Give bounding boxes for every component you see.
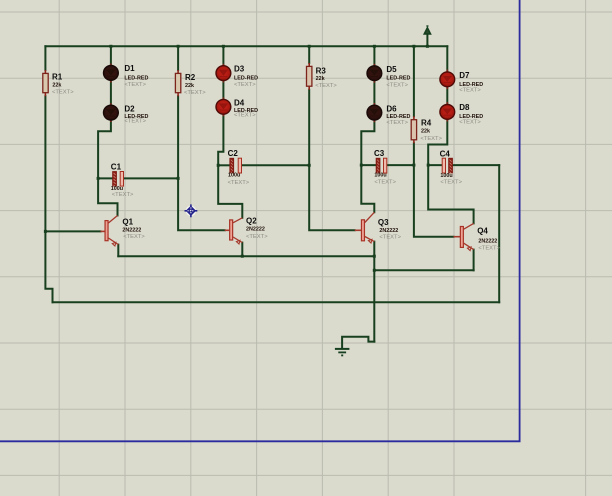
svg-text:<TEXT>: <TEXT> bbox=[184, 90, 206, 96]
svg-text:D6: D6 bbox=[386, 105, 397, 114]
svg-text:LED-RED: LED-RED bbox=[124, 75, 148, 81]
wire C1 right to R2 vertical bbox=[124, 177, 178, 179]
junction rail-R4 bbox=[412, 45, 415, 48]
svg-text:22k: 22k bbox=[185, 83, 194, 89]
resistor R3 bbox=[307, 63, 312, 90]
svg-text:<TEXT>: <TEXT> bbox=[459, 87, 481, 93]
wire rail corner down to D7 top bbox=[446, 46, 448, 72]
svg-text:100u: 100u bbox=[228, 173, 240, 179]
svg-text:D5: D5 bbox=[386, 65, 397, 74]
svg-text:22k: 22k bbox=[316, 76, 325, 82]
svg-text:<TEXT>: <TEXT> bbox=[246, 234, 268, 240]
svg-text:D8: D8 bbox=[459, 103, 470, 112]
svg-text:C3: C3 bbox=[374, 149, 385, 158]
wire D1 to D2 bbox=[110, 80, 112, 107]
junction C3 right bbox=[412, 164, 415, 167]
wire Q1 base node down to feedback jog bbox=[45, 231, 52, 302]
junction Q4 emitter wire bbox=[373, 269, 376, 272]
wire D4 bottom jog to Q2 collector bbox=[218, 114, 242, 218]
wire rail to D1 top bbox=[110, 46, 112, 66]
junction rail-power bbox=[426, 45, 429, 48]
wire rail to R2 top bbox=[177, 46, 179, 70]
wire Q1 emitter drop bbox=[117, 245, 119, 257]
junction rail-R3 bbox=[308, 45, 311, 48]
ground symbol bbox=[335, 349, 350, 356]
svg-text:C2: C2 bbox=[228, 149, 239, 158]
capacitor C1 bbox=[113, 172, 124, 188]
wire feedback riser to C4 bbox=[498, 165, 500, 302]
wire Q4 emitter drop bbox=[473, 250, 475, 271]
svg-text:D4: D4 bbox=[234, 98, 245, 107]
transistor Q4 bbox=[454, 223, 474, 250]
wire R3 bottom to Q3 base bbox=[309, 90, 355, 231]
wire rail to D3 top bbox=[222, 46, 224, 66]
wire Q4 emitter to ground drop bbox=[374, 269, 473, 271]
wire Q2 emitter drop bbox=[241, 243, 243, 257]
svg-text:R1: R1 bbox=[52, 72, 63, 81]
junction Q1 base node bbox=[44, 230, 47, 233]
svg-text:<TEXT>: <TEXT> bbox=[379, 235, 401, 241]
wire feedback rail bbox=[53, 301, 500, 303]
wire power terminal stem bbox=[426, 34, 428, 47]
wire D6 bottom jog to Q3 collector bbox=[361, 120, 374, 213]
svg-text:100u: 100u bbox=[440, 173, 452, 179]
wire R4 bottom to Q4 base bbox=[414, 143, 454, 236]
junction rail-D3 bbox=[222, 45, 225, 48]
wire rail to D5 top bbox=[373, 46, 375, 67]
svg-text:<TEXT>: <TEXT> bbox=[374, 180, 396, 186]
wire Q1 base node to base pin bbox=[45, 230, 100, 232]
LED D8 (lit) bbox=[440, 102, 455, 121]
LED D1 (off) bbox=[104, 64, 119, 83]
wire C3 right to R4 vertical bbox=[387, 164, 414, 166]
svg-text:R4: R4 bbox=[421, 118, 432, 127]
junction C2 right bbox=[308, 164, 311, 167]
LED D7 (lit) bbox=[440, 70, 455, 90]
transistor Q1 bbox=[101, 216, 119, 247]
svg-text:<TEXT>: <TEXT> bbox=[478, 246, 500, 252]
svg-text:<TEXT>: <TEXT> bbox=[123, 234, 145, 240]
wire C4 right plate to riser bbox=[453, 164, 500, 166]
wire R1 bottom to Q1 base node bbox=[44, 96, 46, 231]
svg-text:D1: D1 bbox=[124, 64, 135, 73]
transistor Q2 bbox=[225, 218, 243, 244]
svg-text:Q3: Q3 bbox=[378, 218, 389, 227]
junction Q2 emitter on rail bbox=[241, 255, 244, 258]
svg-text:<TEXT>: <TEXT> bbox=[386, 83, 408, 89]
transistor Q3 bbox=[355, 212, 375, 243]
svg-text:2N2222: 2N2222 bbox=[379, 228, 398, 234]
svg-text:100u: 100u bbox=[374, 173, 386, 179]
svg-text:<TEXT>: <TEXT> bbox=[124, 82, 146, 88]
wire rail to R1 top bbox=[44, 46, 46, 70]
svg-text:2N2222: 2N2222 bbox=[478, 238, 497, 244]
junction C1 right bbox=[177, 177, 180, 180]
LED D6 (off) bbox=[367, 103, 382, 122]
svg-text:D7: D7 bbox=[459, 71, 470, 80]
junction C4 left bbox=[427, 164, 430, 167]
svg-text:<TEXT>: <TEXT> bbox=[234, 82, 256, 88]
power terminal (VCC up arrow) bbox=[424, 26, 430, 34]
junction emitter rail end bbox=[373, 255, 376, 258]
svg-text:2N2222: 2N2222 bbox=[246, 227, 265, 233]
svg-text:<TEXT>: <TEXT> bbox=[440, 180, 462, 186]
wire D3 to D4 bbox=[222, 80, 224, 101]
LED D5 (off) bbox=[367, 64, 382, 83]
junction rail-D1 bbox=[109, 45, 112, 48]
svg-text:D3: D3 bbox=[234, 65, 245, 74]
svg-text:R3: R3 bbox=[316, 67, 327, 76]
junction C2 left bbox=[217, 164, 220, 167]
LED D3 (lit) bbox=[216, 64, 231, 83]
capacitor C3 bbox=[376, 158, 387, 174]
wire C2 left to D4 chain bbox=[218, 164, 230, 166]
capacitor C4 (mirrored) bbox=[442, 158, 452, 174]
svg-text:<TEXT>: <TEXT> bbox=[124, 118, 146, 124]
svg-text:C1: C1 bbox=[111, 163, 122, 172]
svg-text:LED-RED: LED-RED bbox=[386, 76, 410, 82]
svg-text:LED-RED: LED-RED bbox=[386, 114, 410, 120]
svg-text:<TEXT>: <TEXT> bbox=[112, 192, 134, 198]
svg-text:<TEXT>: <TEXT> bbox=[420, 136, 442, 142]
svg-text:Q2: Q2 bbox=[246, 216, 257, 225]
resistor R4 bbox=[411, 116, 416, 143]
junction rail-D5 bbox=[373, 45, 376, 48]
origin marker bbox=[185, 204, 198, 217]
svg-text:R2: R2 bbox=[185, 73, 196, 82]
wire D8 bottom jog to Q4 collector bbox=[428, 119, 473, 224]
svg-text:<TEXT>: <TEXT> bbox=[459, 119, 481, 125]
wire R2 bottom to Q2 base bbox=[178, 96, 225, 230]
svg-text:Q1: Q1 bbox=[122, 217, 133, 226]
svg-text:LED-RED: LED-RED bbox=[234, 75, 258, 81]
wire rail to R3 top bbox=[308, 46, 310, 63]
wire C3 left to D6 chain bbox=[361, 164, 376, 166]
wire C2 right to R3 vertical bbox=[242, 164, 309, 166]
junction C1 left bbox=[97, 177, 100, 180]
capacitor C2 bbox=[230, 158, 242, 174]
wire Q3 emitter drop to ground run bbox=[373, 242, 375, 342]
svg-text:22k: 22k bbox=[52, 82, 61, 88]
junction rail-R2 bbox=[177, 45, 180, 48]
sheet border (blue) bbox=[0, 0, 521, 441]
svg-text:<TEXT>: <TEXT> bbox=[386, 120, 408, 126]
svg-text:<TEXT>: <TEXT> bbox=[315, 83, 337, 89]
svg-text:Q4: Q4 bbox=[477, 227, 488, 236]
wire D5 to D6 bbox=[373, 80, 375, 106]
svg-text:2N2222: 2N2222 bbox=[122, 228, 141, 234]
wire C1 left to D2 chain bbox=[98, 177, 113, 179]
wire emitter rail bbox=[118, 255, 374, 257]
junction C3 left bbox=[360, 164, 363, 167]
wire ground jog bbox=[342, 337, 374, 348]
svg-text:D2: D2 bbox=[124, 105, 135, 114]
svg-text:<TEXT>: <TEXT> bbox=[234, 113, 256, 119]
resistor R2 bbox=[175, 70, 180, 96]
LED D2 (off) bbox=[104, 103, 119, 122]
wire D7 to D8 bbox=[446, 86, 448, 105]
LED D4 (lit) bbox=[216, 97, 231, 116]
resistor R1 bbox=[43, 70, 48, 96]
wire rail to R4 top bbox=[413, 46, 415, 116]
wire C4 left to D8 chain bbox=[428, 164, 442, 166]
svg-text:22k: 22k bbox=[421, 129, 430, 135]
svg-text:C4: C4 bbox=[440, 150, 451, 159]
svg-text:<TEXT>: <TEXT> bbox=[228, 180, 250, 186]
svg-text:<TEXT>: <TEXT> bbox=[52, 90, 74, 96]
wire VCC top rail bbox=[45, 45, 447, 47]
wire D2 bottom jog to Q1 collector bbox=[98, 119, 117, 215]
